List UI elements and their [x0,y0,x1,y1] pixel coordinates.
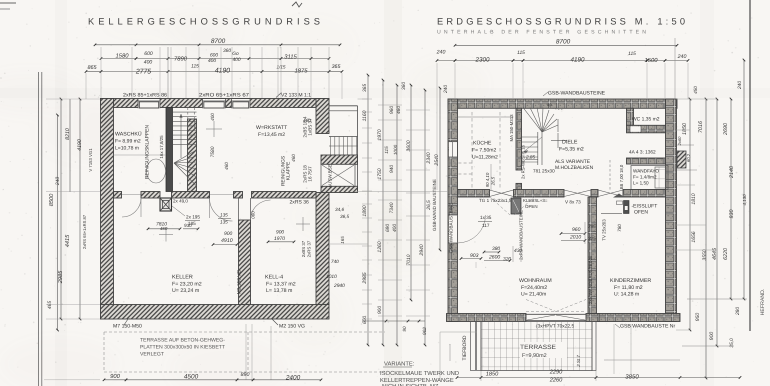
svg-text:1970: 1970 [274,236,285,242]
svg-text:V 8x 73: V 8x 73 [565,200,581,205]
svg-text:ALS VARIANTE: ALS VARIANTE [555,159,591,165]
svg-text:2985: 2985 [362,272,368,284]
svg-text:TIEFBORD: TIEFBORD [462,335,468,360]
svg-text:F= 11,80 m2: F= 11,80 m2 [614,285,643,291]
svg-text:35,0: 35,0 [729,338,735,348]
svg-text:2xBS 37: 2xBS 37 [301,240,306,257]
svg-text:2010: 2010 [569,235,581,241]
svg-text:4910: 4910 [221,238,233,244]
svg-text:2260: 2260 [549,378,563,384]
svg-text:KINDERZIMMER: KINDERZIMMER [610,278,651,284]
svg-text:930: 930 [729,210,735,219]
svg-text:2xRS 37: 2xRS 37 [307,240,312,257]
svg-text:460: 460 [224,162,229,170]
svg-text:KLEBSL+3=: KLEBSL+3= [523,198,548,203]
svg-text:2,85: 2,85 [525,155,535,160]
svg-text:1850: 1850 [682,123,688,135]
svg-text:960: 960 [572,227,581,233]
svg-text:TV 25x203: TV 25x203 [602,219,607,241]
svg-text:2140: 2140 [729,166,735,179]
svg-text:460: 460 [303,118,311,123]
svg-text:F= 23,20 m2: F= 23,20 m2 [172,282,202,288]
svg-text:400: 400 [232,57,240,63]
svg-text:460: 460 [160,226,168,231]
svg-text:2 St 7: 2 St 7 [576,355,581,368]
svg-text:2x 195: 2x 195 [186,215,200,220]
svg-text:2x60: 2x60 [677,136,682,147]
svg-text:MA 150-M313: MA 150-M313 [509,114,514,142]
svg-text:1810: 1810 [691,193,697,204]
svg-text:2540: 2540 [434,154,440,166]
svg-text:KÜCHE: KÜCHE [473,140,492,147]
svg-text:2x RS-WBSTE 16: 2x RS-WBSTE 16 [521,144,526,179]
svg-text:WANDFAYO: WANDFAYO [633,169,659,174]
svg-text:135: 135 [220,220,228,225]
svg-text:U=11,28m2: U=11,28m2 [472,155,498,161]
svg-text:U= 23,24 m: U= 23,24 m [172,288,200,294]
svg-text:115: 115 [628,51,636,57]
svg-text:6220: 6220 [723,248,729,260]
svg-text:KELL-4: KELL-4 [265,275,283,281]
svg-text:26,5: 26,5 [426,200,432,211]
svg-text:F= 7,50m2: F= 7,50m2 [472,148,496,154]
svg-text:2x 49,0: 2x 49,0 [173,199,188,204]
svg-text:Go: Go [232,51,239,57]
svg-text:2775: 2775 [135,69,151,76]
svg-text:2400: 2400 [285,375,301,382]
svg-text:240: 240 [436,50,446,56]
svg-text:OPEN: OPEN [525,204,538,209]
svg-text:2690: 2690 [723,123,729,136]
svg-text:2290: 2290 [549,370,563,376]
svg-text:1970: 1970 [377,129,383,140]
svg-text:F=5,35 m2: F=5,35 m2 [559,147,584,153]
svg-text:W=RKSTATT: W=RKSTATT [256,125,288,131]
svg-text:930: 930 [184,223,192,228]
svg-text:4,130: 4,130 [742,194,747,206]
svg-text:2x6-WANDBAUSTEINE: 2x6-WANDBAUSTEINE [588,256,593,304]
svg-text:KELLER: KELLER [172,275,193,281]
svg-text:OFEN: OFEN [634,210,648,216]
svg-text:117: 117 [482,223,490,228]
svg-text:up: up [547,102,552,107]
svg-text:WC 1,35 m2: WC 1,35 m2 [632,117,660,123]
svg-text:1010: 1010 [326,274,337,280]
svg-text:KLAPPE: KLAPPE [286,162,292,180]
svg-text:GSB-WAND BAUSTEINE: GSB-WAND BAUSTEINE [432,179,437,231]
svg-text:600: 600 [144,51,153,57]
svg-text:F= 13,37 m2: F= 13,37 m2 [266,282,296,288]
svg-text:7580: 7580 [210,146,216,157]
svg-text:F=13,45 m2: F=13,45 m2 [258,132,285,138]
svg-text:WOHNRAUM: WOHNRAUM [519,278,552,284]
svg-text:F=9,90m2: F=9,90m2 [522,353,547,359]
svg-text:1x 35: 1x 35 [480,215,492,220]
svg-text:600: 600 [362,316,368,324]
svg-text:1500: 1500 [644,57,658,64]
svg-text:AUSW.BSE: AUSW.BSE [328,164,333,188]
svg-text:115: 115 [517,50,525,56]
svg-text:780: 780 [617,224,622,232]
svg-text:1580: 1580 [115,53,129,60]
svg-text:903: 903 [470,253,479,259]
svg-text:900: 900 [224,231,232,237]
svg-text:1750: 1750 [377,168,383,179]
svg-text:TG 1 75x23x1,5: TG 1 75x23x1,5 [479,198,512,203]
svg-text:2940: 2940 [333,283,345,289]
svg-text:90: 90 [402,326,407,332]
svg-text:060: 060 [251,211,256,219]
svg-text:DIELE: DIELE [562,140,578,146]
svg-text:HEFRAND.: HEFRAND. [760,289,766,316]
svg-text:4190: 4190 [571,57,585,64]
svg-text:26,5: 26,5 [491,176,496,186]
svg-text:900: 900 [276,230,284,236]
svg-text:90 4,10: 90 4,10 [485,172,490,187]
svg-text:GSB-WANDBAUSTEINE: GSB-WANDBAUSTEINE [449,203,454,254]
svg-text:2xRS 65+1xRS 87: 2xRS 65+1xRS 87 [82,214,87,249]
svg-text:380: 380 [492,246,500,252]
svg-text:U= 21,40m: U= 21,40m [521,292,546,298]
svg-text:TERRASSE: TERRASSE [520,344,556,351]
svg-text:VERLEGT: VERLEGT [140,352,165,358]
svg-text:16x 17,8/25: 16x 17,8/25 [159,135,164,159]
svg-text:902: 902 [422,327,427,335]
svg-text:460: 460 [291,154,296,162]
svg-text:2300: 2300 [475,57,490,64]
svg-text:400: 400 [144,60,153,66]
svg-text:3850: 3850 [625,374,639,381]
svg-text:4A 4 3: 1362: 4A 4 3: 1362 [629,150,656,156]
svg-text:2600: 2600 [488,255,500,261]
svg-text:F=24,40m2: F=24,40m2 [521,285,547,291]
svg-text:2340: 2340 [426,152,432,164]
svg-text:GSB WANDBAUSTE Nr: GSB WANDBAUSTE Nr [620,323,676,329]
svg-text:240: 240 [677,54,687,60]
svg-text:8700: 8700 [556,39,571,46]
svg-text:320: 320 [503,257,511,263]
svg-text:U: 14,28 m: U: 14,28 m [614,292,639,298]
svg-text:8500: 8500 [49,193,55,206]
svg-text:280: 280 [735,307,741,316]
svg-text:1850: 1850 [486,372,499,378]
svg-text:900: 900 [377,306,383,314]
svg-text:F= 1,4/8m2: F= 1,4/8m2 [633,175,657,180]
svg-text:465: 465 [47,301,53,309]
svg-text:BB 7,00 18,0: BB 7,00 18,0 [619,164,624,189]
svg-text:781 25x30: 781 25x30 [533,169,555,174]
svg-text:135: 135 [220,213,228,218]
svg-text:M.HOLZBALKEN: M.HOLZBALKEN [555,165,594,171]
svg-text:16 75/7: 16 75/7 [308,166,313,182]
svg-text:865: 865 [87,65,97,71]
svg-text:1656: 1656 [691,231,697,242]
svg-text:M7 150-M50: M7 150-M50 [113,324,142,330]
svg-text:400: 400 [210,113,215,121]
